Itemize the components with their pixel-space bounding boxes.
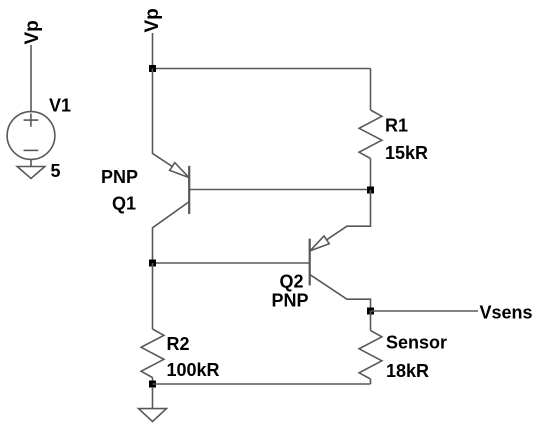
wire V1 bottom lead xyxy=(30,159,32,166)
svg-text:Q2: Q2 xyxy=(280,272,304,292)
wire R1 top lead xyxy=(370,69,372,111)
wire Sensor top lead xyxy=(370,311,372,331)
V1 plus sign xyxy=(24,114,39,127)
junction ground node xyxy=(149,381,156,388)
transistor Q1 collector wire xyxy=(153,202,190,263)
svg-text:Vsens: Vsens xyxy=(480,303,533,323)
V1 minus sign xyxy=(24,149,39,151)
svg-text:5: 5 xyxy=(51,161,61,181)
junction Q1 collector node xyxy=(149,260,156,267)
resistor R1 xyxy=(359,110,382,159)
wire Q2 base lead to Q1 collector xyxy=(153,262,310,264)
svg-text:Vp: Vp xyxy=(22,20,43,44)
transistor Q2 collector wire xyxy=(310,274,371,311)
wire ground lead xyxy=(152,387,154,409)
transistor Q1 emitter wire xyxy=(153,69,189,178)
svg-text:V1: V1 xyxy=(49,96,71,116)
resistor Sensor xyxy=(359,331,382,380)
wire Sensor bottom lead xyxy=(370,379,372,384)
wire Vsens xyxy=(371,310,479,312)
resistor R2 xyxy=(141,329,164,378)
wire R2 top lead xyxy=(152,263,154,329)
svg-text:Vp: Vp xyxy=(142,8,163,32)
transistor Q1 base bar xyxy=(188,166,190,214)
svg-text:Q1: Q1 xyxy=(112,194,136,214)
wire Q1 base lead to R1 node xyxy=(189,189,370,191)
wire Vp down to junction xyxy=(152,33,154,69)
wire R1 bottom lead xyxy=(370,159,372,191)
transistor Q2 emitter arrow xyxy=(310,236,329,251)
junction sensor top node xyxy=(367,308,374,315)
svg-text:R1: R1 xyxy=(385,116,408,136)
svg-text:PNP: PNP xyxy=(272,291,309,311)
transistor Q2 base bar xyxy=(309,239,311,286)
svg-text:PNP: PNP xyxy=(101,167,138,187)
wire bottom rail xyxy=(153,383,371,385)
wire V1 top lead xyxy=(30,45,32,112)
ground (below R2) xyxy=(139,409,167,422)
svg-text:18kR: 18kR xyxy=(386,361,429,381)
svg-text:Sensor: Sensor xyxy=(386,333,447,353)
ground (below V1) xyxy=(17,167,45,179)
wire R2 bottom lead xyxy=(152,378,154,385)
transistor Q1 emitter arrow xyxy=(170,163,189,178)
junction base node (R1 bottom) xyxy=(367,187,374,194)
svg-text:R2: R2 xyxy=(167,334,190,354)
wire top rail horizontal xyxy=(153,68,371,70)
svg-text:100kR: 100kR xyxy=(167,360,220,380)
voltage source V1 circle xyxy=(7,112,55,160)
transistor Q2 emitter wire xyxy=(310,190,371,251)
junction Vp rail xyxy=(149,65,156,72)
svg-text:15kR: 15kR xyxy=(385,143,428,163)
